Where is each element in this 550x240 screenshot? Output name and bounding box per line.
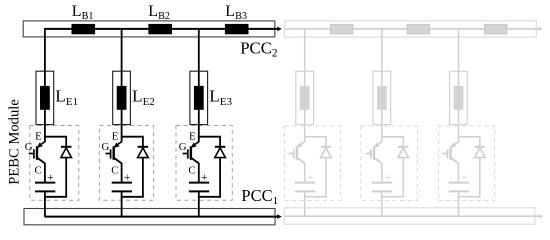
inductor L_E5 housing box <box>373 71 391 124</box>
transistor Q2 body bar <box>112 146 114 160</box>
inductor L_E5 body <box>377 86 387 110</box>
diode D4 anode wire <box>325 157 327 197</box>
svg-text:LB3: LB3 <box>225 3 247 22</box>
wire collector to capacitor (module 4) <box>304 163 306 182</box>
transistor Q1 collector lead <box>37 158 45 164</box>
inductor L_E2 housing box <box>113 71 131 124</box>
wire branch 6 vertical (bus to IGBT emitter) <box>458 28 460 142</box>
svg-text:E: E <box>189 130 196 142</box>
inductor L_E6 housing box <box>450 71 468 124</box>
wire branch 3 vertical (bus to IGBT emitter) <box>198 28 200 142</box>
svg-text:PEBC Module: PEBC Module <box>6 99 22 185</box>
wire diode anode return (module 4) <box>304 196 327 198</box>
inductor L_E3 body <box>194 86 204 110</box>
wire collector to capacitor (module 3) <box>198 163 200 182</box>
svg-text:E: E <box>35 130 42 142</box>
transistor Q3 emitter lead with arrow <box>195 142 198 144</box>
svg-text:+: + <box>384 170 391 184</box>
transistor Q2 emitter lead with arrow <box>118 142 121 144</box>
capacitor C5 bottom plate <box>372 190 392 192</box>
diode D2 cathode bar <box>138 146 149 148</box>
svg-text:E: E <box>112 130 119 142</box>
diode D5 anode wire <box>402 157 404 197</box>
svg-text:+: + <box>47 170 54 184</box>
module box 5 (gray dashed) <box>361 126 418 201</box>
diode D6 triangle <box>475 148 486 158</box>
svg-text:+: + <box>201 170 208 184</box>
bus bar housing PCC1 (bottom, left/black section) <box>24 209 275 225</box>
capacitor C5 top plate <box>372 182 392 184</box>
wire branch 4 vertical (bus to IGBT emitter) <box>304 28 306 142</box>
inductor L_B5 body (gray) <box>407 24 430 34</box>
wire E-node to diode cathode (module 6) <box>459 136 480 138</box>
transistor Q3 gate lead <box>183 153 188 155</box>
diode D6 cathode bar <box>475 146 486 148</box>
inductor L_E1 housing box <box>36 71 54 124</box>
inductor L_B3 body <box>225 24 249 34</box>
bus bar housing PCC2 continuation (gray) <box>284 21 536 37</box>
svg-text:G: G <box>25 141 33 153</box>
transistor Q4 gate lead <box>289 153 294 155</box>
transistor Q5 body bar <box>373 146 375 160</box>
inductor L_E1 body <box>40 86 50 110</box>
inductor L_E2 body <box>117 86 127 110</box>
svg-text:C: C <box>35 164 42 176</box>
diode D4 cathode wire <box>325 136 327 147</box>
svg-text:LE3: LE3 <box>209 87 232 108</box>
diode D1 cathode wire <box>65 136 67 147</box>
diode D3 triangle <box>215 148 226 158</box>
transistor Q1 gate lead <box>29 153 34 155</box>
inductor L_E4 body <box>300 86 310 110</box>
inductor L_B6 body (gray) <box>484 24 507 34</box>
capacitor C4 top plate <box>295 182 315 184</box>
wire PCC2 bus (gray) <box>284 28 538 30</box>
arrow PCC2 bus continuation <box>277 27 282 32</box>
transistor Q6 collector lead <box>451 158 459 164</box>
bus bar housing PCC2 (top, left/black section) <box>23 21 275 37</box>
module box 2 (dashed) <box>99 126 153 201</box>
capacitor C1 top plate <box>35 182 55 184</box>
inductor L_E4 housing box <box>296 71 314 124</box>
svg-text:LE1: LE1 <box>55 87 78 108</box>
diode D1 cathode bar <box>61 146 72 148</box>
wire branch 2 vertical (bus to IGBT emitter) <box>121 28 123 142</box>
wire capacitor to PCC1 bus (module 5) <box>381 192 383 217</box>
inductor L_B1 body <box>72 24 96 34</box>
transistor Q6 emitter lead with arrow <box>455 142 458 144</box>
transistor Q4 collector lead <box>297 158 305 164</box>
inductor L_B2 body <box>148 24 172 34</box>
bus bar housing PCC1 continuation (gray) <box>284 208 535 225</box>
wire diode anode return (module 2) <box>121 196 144 198</box>
transistor Q4 body bar <box>296 146 298 160</box>
transistor Q1 body bar <box>36 146 38 160</box>
transistor Q2 collector lead <box>114 158 122 164</box>
transistor Q5 emitter lead with arrow <box>378 142 381 144</box>
wire capacitor to PCC1 bus (module 4) <box>304 192 306 217</box>
wire E-node to diode cathode (module 2) <box>122 136 143 138</box>
wire diode anode return (module 6) <box>458 196 481 198</box>
capacitor C2 bottom plate <box>112 190 132 192</box>
transistor Q5 gate lead <box>366 153 371 155</box>
diode D5 cathode wire <box>402 136 404 147</box>
wire diode anode return (module 1) <box>44 196 67 198</box>
transistor Q1 emitter lead with arrow <box>41 142 44 144</box>
capacitor C2 top plate <box>112 182 132 184</box>
svg-text:+: + <box>124 170 131 184</box>
transistor Q1 gate bar <box>33 149 35 158</box>
transistor Q5 gate bar <box>370 149 372 158</box>
capacitor C3 bottom plate <box>189 190 209 192</box>
svg-text:+: + <box>461 170 468 184</box>
transistor Q3 collector lead <box>191 158 199 164</box>
diode D3 anode wire <box>219 157 221 197</box>
wire collector to capacitor (module 6) <box>458 163 460 182</box>
wire PCC1 bus (gray) <box>284 215 539 217</box>
svg-text:C: C <box>188 164 195 176</box>
transistor Q6 gate bar <box>447 149 449 158</box>
transistor Q2 gate lead <box>105 153 110 155</box>
diode D3 cathode wire <box>219 136 221 147</box>
arrow PCC1 bus continuation <box>277 214 282 219</box>
capacitor C6 bottom plate <box>449 190 469 192</box>
transistor Q6 gate lead <box>442 153 447 155</box>
module box 4 (gray dashed) <box>285 126 341 201</box>
wire diode anode return (module 3) <box>198 196 221 198</box>
inductor L_B4 body (gray) <box>330 24 353 34</box>
diode D5 triangle <box>398 148 409 158</box>
wire PCC1 bus <box>45 216 278 218</box>
diode D4 cathode bar <box>321 146 332 148</box>
wire E-node to diode cathode (module 3) <box>199 136 220 138</box>
wire capacitor to PCC1 bus (module 1) <box>44 192 46 217</box>
svg-text:C: C <box>111 164 118 176</box>
transistor Q3 body bar <box>190 146 192 160</box>
svg-text:G: G <box>102 141 110 153</box>
transistor Q5 collector lead <box>374 158 382 164</box>
diode D2 triangle <box>138 148 149 158</box>
transistor Q3 gate bar <box>187 149 189 158</box>
arrow PCC1 bus end (gray) <box>539 214 544 218</box>
svg-text:LB2: LB2 <box>148 3 170 22</box>
svg-text:PCC2: PCC2 <box>240 38 278 59</box>
wire collector to capacitor (module 2) <box>121 163 123 182</box>
svg-text:PCC1: PCC1 <box>241 186 278 207</box>
diode D1 triangle <box>61 148 72 158</box>
wire E-node to diode cathode (module 5) <box>382 136 403 138</box>
diode D1 anode wire <box>65 157 67 197</box>
wire E-node to diode cathode (module 1) <box>45 136 66 138</box>
capacitor C6 top plate <box>449 182 469 184</box>
wire capacitor to PCC1 bus (module 3) <box>198 192 200 217</box>
module box 6 (gray dashed) <box>439 126 495 201</box>
transistor Q6 body bar <box>449 146 451 160</box>
diode D6 cathode wire <box>479 136 481 147</box>
wire capacitor to PCC1 bus (module 2) <box>121 192 123 217</box>
inductor L_E6 body <box>454 86 464 110</box>
capacitor C4 bottom plate <box>295 190 315 192</box>
capacitor C1 bottom plate <box>35 190 55 192</box>
diode D3 cathode bar <box>215 146 226 148</box>
arrow PCC2 bus end (gray) <box>538 27 543 31</box>
diode D2 cathode wire <box>142 136 144 147</box>
wire collector to capacitor (module 5) <box>381 163 383 182</box>
svg-text:LE2: LE2 <box>132 87 155 108</box>
transistor Q2 gate bar <box>110 149 112 158</box>
module box 1 (dashed) <box>30 126 79 201</box>
module box 3 (dashed) <box>176 126 232 201</box>
diode D4 triangle <box>321 148 332 158</box>
wire PCC2 bus <box>45 28 278 30</box>
wire capacitor to PCC1 bus (module 6) <box>458 192 460 217</box>
wire diode anode return (module 5) <box>381 196 404 198</box>
svg-text:G: G <box>179 141 187 153</box>
diode D5 cathode bar <box>398 146 409 148</box>
wire collector to capacitor (module 1) <box>44 163 46 182</box>
inductor L_E3 housing box <box>190 71 208 124</box>
wire branch 5 vertical (bus to IGBT emitter) <box>381 28 383 142</box>
svg-text:+: + <box>307 170 314 184</box>
transistor Q4 emitter lead with arrow <box>301 142 304 144</box>
wire E-node to diode cathode (module 4) <box>305 136 326 138</box>
capacitor C3 top plate <box>189 182 209 184</box>
diode D2 anode wire <box>142 157 144 197</box>
diode D6 anode wire <box>479 157 481 197</box>
svg-text:LB1: LB1 <box>72 3 94 22</box>
wire branch 1 vertical (bus to IGBT emitter) <box>44 28 46 142</box>
transistor Q4 gate bar <box>293 149 295 158</box>
